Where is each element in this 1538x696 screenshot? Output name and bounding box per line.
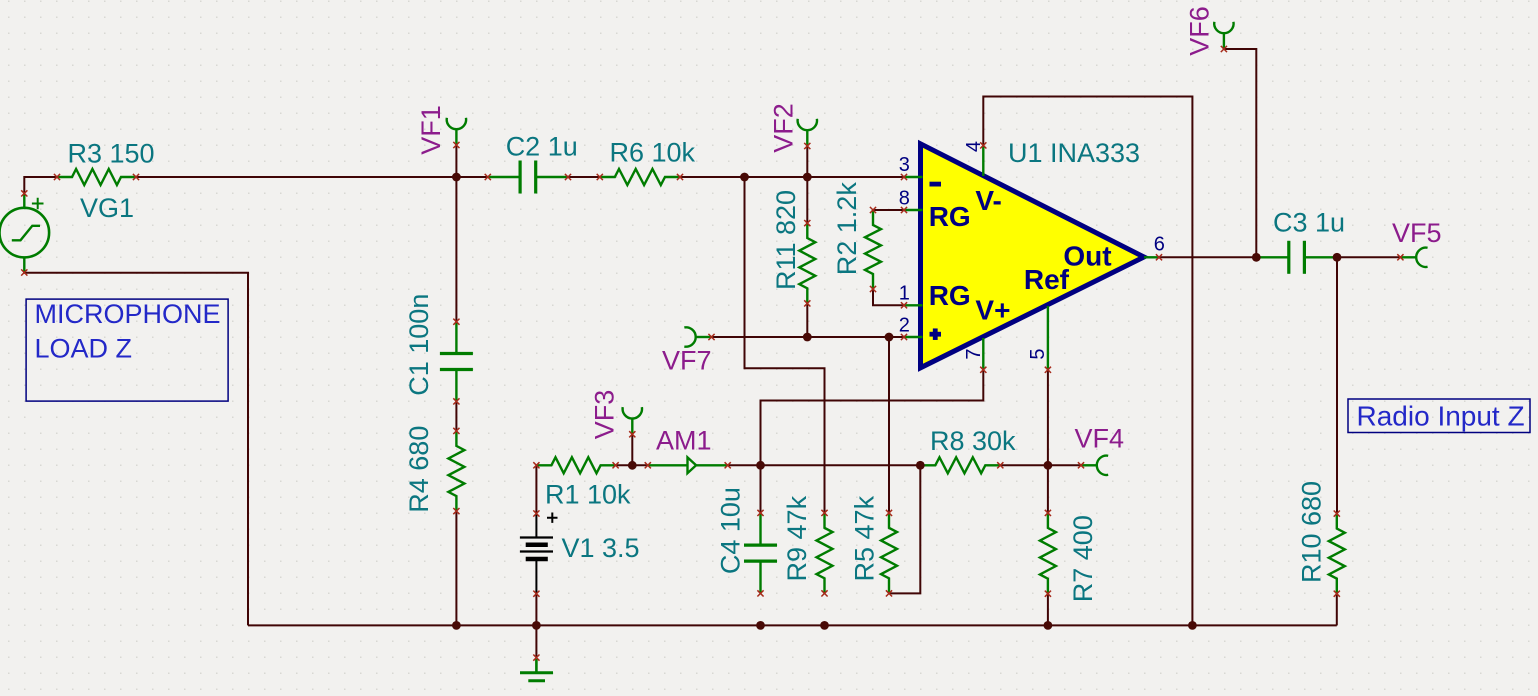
probe VF4 bbox=[1078, 456, 1108, 475]
node VF2 bbox=[803, 173, 812, 182]
probe VF1 bbox=[447, 118, 466, 148]
label VF2 bbox=[769, 103, 799, 153]
svg-text:MICROPHONE: MICROPHONE bbox=[35, 299, 221, 329]
svg-text:VF1: VF1 bbox=[416, 105, 446, 155]
wire R1 left to V1 bbox=[535, 465, 537, 513]
label VF7 bbox=[662, 346, 712, 376]
wire VF2 node to R11 bbox=[806, 177, 808, 223]
label R2 1.2k bbox=[832, 182, 862, 276]
node supply bbox=[756, 461, 765, 470]
svg-text:RG: RG bbox=[929, 280, 971, 311]
label VF3 bbox=[590, 390, 620, 440]
probe VF2 bbox=[798, 119, 817, 149]
U1 pin 5 stub bbox=[1045, 306, 1051, 373]
wire rail to ground symbol bbox=[535, 625, 537, 657]
resistor R3 bbox=[54, 169, 139, 185]
resistor R10 bbox=[1329, 511, 1345, 597]
wire C3 node down to R10 bbox=[1336, 257, 1338, 513]
svg-text:Out: Out bbox=[1063, 241, 1111, 272]
U1 pin 8 stub bbox=[901, 207, 923, 213]
label VF1 bbox=[416, 105, 446, 155]
node rail R4 bbox=[452, 621, 461, 630]
svg-text:VF4: VF4 bbox=[1075, 424, 1125, 454]
wire R8 to VF4 (node pin5) bbox=[1000, 464, 1081, 466]
svg-text:C4 10u: C4 10u bbox=[716, 487, 746, 574]
svg-text:R9 47k: R9 47k bbox=[782, 495, 812, 581]
wire R7 to ground rail bbox=[1047, 593, 1049, 625]
svg-text:R4 680: R4 680 bbox=[404, 426, 434, 513]
U1 pin number 1 bbox=[899, 282, 910, 304]
wire minus node to R9 bbox=[745, 177, 825, 513]
svg-text:C3 1u: C3 1u bbox=[1273, 208, 1345, 238]
U1 pin number 3 bbox=[899, 154, 910, 176]
probe VF7 bbox=[684, 327, 714, 346]
wire VF6 down to out node bbox=[1224, 49, 1256, 257]
U1 pin 2 stub bbox=[901, 334, 923, 340]
wire pin5 Ref down bbox=[1047, 370, 1049, 466]
probe VF3 bbox=[623, 407, 642, 437]
label VF4 bbox=[1075, 424, 1125, 454]
U1 label Out bbox=[1063, 241, 1111, 272]
wire VF1 stem bbox=[455, 145, 457, 177]
node VF1 bbox=[452, 173, 461, 182]
wire pin7 V+ to supply node bbox=[761, 370, 984, 466]
U1 pin number 7 bbox=[963, 348, 985, 359]
svg-text:6: 6 bbox=[1154, 234, 1165, 256]
svg-text:4: 4 bbox=[963, 141, 985, 152]
svg-text:RG: RG bbox=[929, 201, 971, 232]
svg-text:U1 INA333: U1 INA333 bbox=[1008, 138, 1140, 168]
resistor R7 bbox=[1040, 510, 1056, 597]
svg-text:V-: V- bbox=[975, 185, 1001, 216]
wire supply node to C4 bbox=[760, 465, 762, 513]
label R1 10k bbox=[545, 480, 631, 510]
node C3 right bbox=[1333, 253, 1342, 262]
wire pin5 node to R7 bbox=[1047, 465, 1049, 513]
svg-text:VF2: VF2 bbox=[769, 103, 799, 153]
label C4 10u bbox=[716, 487, 746, 574]
node R11 bottom bbox=[803, 333, 812, 342]
node plus input bbox=[885, 333, 894, 342]
resistor R5 bbox=[881, 510, 897, 597]
node rail R9 bbox=[820, 621, 829, 630]
svg-text:Radio Input Z: Radio Input Z bbox=[1357, 400, 1525, 431]
node R8 left bbox=[916, 461, 925, 470]
svg-text:5: 5 bbox=[1027, 348, 1049, 359]
svg-text:R8 30k: R8 30k bbox=[930, 426, 1016, 456]
svg-text:R10 680: R10 680 bbox=[1296, 481, 1326, 583]
probe VF5 bbox=[1397, 248, 1427, 267]
label R9 47k bbox=[782, 495, 812, 581]
capacitor C4 bbox=[744, 510, 777, 597]
svg-text:R7 400: R7 400 bbox=[1068, 515, 1098, 602]
wire R4 to ground rail bbox=[455, 511, 457, 625]
label R6 10k bbox=[610, 137, 696, 167]
svg-text:R3 150: R3 150 bbox=[68, 138, 155, 168]
probe VF6 bbox=[1214, 22, 1233, 52]
svg-text:C2 1u: C2 1u bbox=[506, 131, 578, 161]
capacitor C2 bbox=[485, 161, 571, 194]
label C1 100n bbox=[404, 294, 434, 396]
svg-text:VF6: VF6 bbox=[1185, 6, 1215, 56]
U1 label V+ bbox=[975, 295, 1010, 326]
U1 pin number 8 bbox=[899, 188, 910, 210]
text box Radio Input Z bbox=[1348, 399, 1530, 433]
wire R2 top to pin8 bbox=[873, 209, 904, 211]
wire VF7 row to U1 pin2 bbox=[712, 336, 905, 338]
svg-text:C1 100n: C1 100n bbox=[404, 294, 434, 396]
svg-text:VF5: VF5 bbox=[1392, 218, 1442, 248]
label AM1 bbox=[656, 426, 712, 456]
svg-text:V1 3.5: V1 3.5 bbox=[562, 533, 640, 563]
U1 pin 3 stub bbox=[901, 174, 923, 180]
node rail R7 bbox=[1044, 621, 1053, 630]
U1 pin number 4 bbox=[963, 141, 985, 152]
label R3 150 bbox=[68, 138, 155, 168]
svg-text:AM1: AM1 bbox=[656, 426, 712, 456]
svg-text:VF7: VF7 bbox=[662, 346, 712, 376]
svg-text:R6 10k: R6 10k bbox=[610, 137, 696, 167]
resistor R8 bbox=[917, 457, 1003, 473]
node rail V- bbox=[1188, 621, 1197, 630]
label R10 680 bbox=[1296, 481, 1326, 583]
label R8 30k bbox=[930, 426, 1016, 456]
op-amp U1 INA333 body bbox=[921, 144, 1145, 368]
label C3 1u bbox=[1273, 208, 1345, 238]
svg-text:R2 1.2k: R2 1.2k bbox=[832, 182, 862, 276]
wire C1 to R4 bbox=[455, 401, 457, 431]
battery V1 bbox=[520, 510, 558, 596]
wire VG1 top to R3 bbox=[24, 177, 57, 193]
svg-text:8: 8 bbox=[899, 188, 910, 210]
wire AM1 to R8 bbox=[728, 464, 921, 466]
svg-text:2: 2 bbox=[899, 315, 910, 337]
node Ref bbox=[1044, 461, 1053, 470]
wire VG1 bottom around microphone box bbox=[24, 273, 248, 626]
wire VF3 stem bbox=[631, 434, 633, 465]
resistor R1 bbox=[533, 457, 618, 473]
svg-text:R1 10k: R1 10k bbox=[545, 480, 631, 510]
wire R3 to C2 (node VF1) bbox=[136, 176, 488, 178]
node rail V1 bbox=[532, 621, 541, 630]
U1 label V- bbox=[975, 185, 1001, 216]
label R5 47k bbox=[849, 495, 879, 581]
svg-text:VF3: VF3 bbox=[590, 390, 620, 440]
U1 pin 1 stub bbox=[901, 302, 923, 308]
wire C2 to R6 bbox=[568, 176, 600, 178]
wire R10 to ground rail bbox=[1336, 593, 1338, 625]
label V1 3.5 bbox=[562, 533, 640, 563]
ground bbox=[520, 655, 553, 681]
resistor R4 bbox=[448, 428, 464, 514]
U1 pin number 2 bbox=[899, 315, 910, 337]
wire pin4 V- to ground rail bbox=[983, 97, 1192, 626]
wire ground rail bbox=[248, 624, 1337, 626]
svg-text:LOAD Z: LOAD Z bbox=[35, 333, 133, 363]
wire pin6 Out to VF6 node bbox=[1159, 256, 1256, 258]
label VG1 bbox=[80, 193, 134, 223]
resistor R11 bbox=[799, 220, 815, 307]
U1 pin 4 stub bbox=[980, 142, 986, 176]
U1 label RG bottom bbox=[929, 280, 971, 311]
node rail C4 bbox=[756, 621, 765, 630]
node VF6 out bbox=[1252, 253, 1261, 262]
label R7 400 bbox=[1068, 515, 1098, 602]
ammeter AM1 bbox=[645, 457, 731, 473]
node minus input bbox=[740, 173, 749, 182]
label VF5 bbox=[1392, 218, 1442, 248]
node VF3 bbox=[628, 461, 637, 470]
wire R1 to AM1 (node VF3) bbox=[616, 464, 648, 466]
wire node + down to R5 bbox=[888, 337, 890, 513]
svg-text:V+: V+ bbox=[975, 295, 1010, 326]
label U1 INA333 bbox=[1008, 138, 1140, 168]
U1 label RG top bbox=[929, 201, 971, 232]
U1 pin number 6 bbox=[1154, 234, 1165, 256]
svg-text:R5 47k: R5 47k bbox=[849, 495, 879, 581]
U1 pin 7 stub bbox=[980, 338, 986, 373]
voltage source VG1 bbox=[0, 190, 49, 275]
capacitor C1 bbox=[440, 319, 473, 405]
label VF6 bbox=[1185, 6, 1215, 56]
U1 pin 6 stub bbox=[1144, 254, 1162, 260]
wire V1 to ground rail bbox=[535, 593, 537, 625]
capacitor C3 bbox=[1253, 241, 1340, 274]
wire R2 bottom to pin1 bbox=[873, 289, 904, 305]
svg-text:R11 820: R11 820 bbox=[771, 190, 801, 290]
wire R5 bottom to R8 node bbox=[889, 465, 920, 593]
resistor R6 bbox=[597, 169, 683, 185]
wire VF2 stem bbox=[806, 146, 808, 177]
label C2 1u bbox=[506, 131, 578, 161]
wire C3 to VF5 bbox=[1337, 256, 1400, 258]
svg-text:3: 3 bbox=[899, 154, 910, 176]
wire R6 to U1 pin3 (node VF2) bbox=[680, 176, 904, 178]
U1 label - (pin3) bbox=[930, 182, 942, 187]
wire R11 to VF7 node bbox=[806, 303, 808, 337]
U1 label Ref bbox=[1024, 264, 1070, 295]
svg-text:Ref: Ref bbox=[1024, 264, 1070, 295]
resistor R9 bbox=[817, 510, 833, 597]
wire VF1 node down to C1 bbox=[455, 177, 457, 322]
svg-text:1: 1 bbox=[899, 282, 910, 304]
U1 label + (pin2) bbox=[930, 328, 942, 340]
U1 pin number 5 bbox=[1027, 348, 1049, 359]
label R11 820 bbox=[771, 190, 801, 290]
svg-text:VG1: VG1 bbox=[80, 193, 134, 223]
text box MICROPHONE LOAD Z bbox=[26, 299, 228, 401]
resistor R2 bbox=[865, 207, 881, 292]
svg-text:7: 7 bbox=[963, 348, 985, 359]
label R4 680 bbox=[404, 426, 434, 513]
